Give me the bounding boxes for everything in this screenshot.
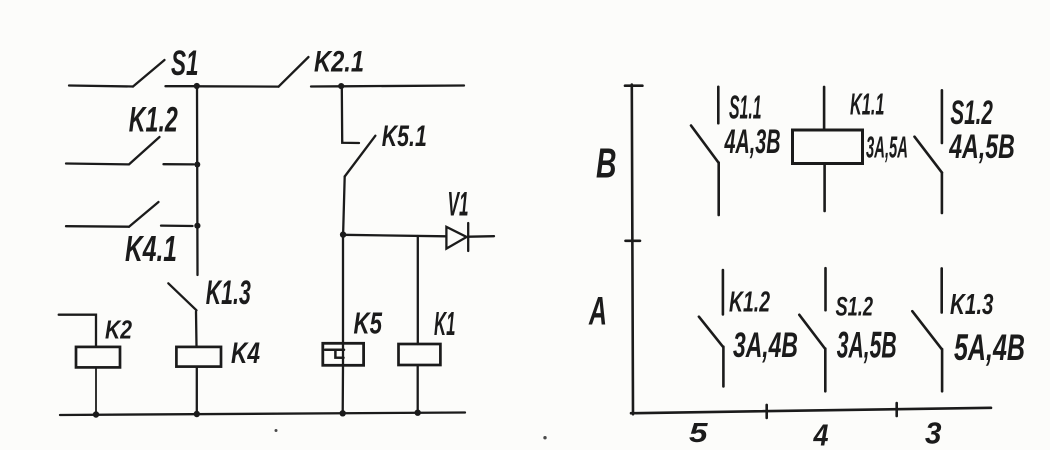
wire to K4 coil bbox=[195, 312, 198, 347]
wire K2 to rail bbox=[95, 367, 97, 414]
contact K1.3 top bbox=[940, 268, 943, 312]
svg-text:S1.2: S1.2 bbox=[950, 94, 993, 132]
wire K5.1 down bbox=[343, 177, 345, 235]
relay coil K4 bbox=[176, 347, 221, 367]
svg-text:3A,5A: 3A,5A bbox=[866, 130, 908, 165]
svg-text:K1.2: K1.2 bbox=[129, 101, 178, 140]
axis vertical bbox=[632, 85, 633, 415]
svg-text:K2: K2 bbox=[105, 315, 132, 345]
contact S1.2b top bbox=[824, 268, 827, 310]
svg-text:K1: K1 bbox=[434, 305, 456, 342]
axis tick x5/4 bbox=[765, 405, 768, 418]
contact K1.1 bottom bbox=[823, 164, 826, 212]
wire row1 b bbox=[166, 85, 198, 87]
axis top tick bbox=[625, 84, 642, 87]
switch K4.1 blade bbox=[129, 202, 159, 227]
svg-text:S1.1: S1.1 bbox=[729, 89, 762, 126]
svg-text:V1: V1 bbox=[448, 186, 469, 224]
wire K5 branch vertical bbox=[342, 235, 344, 366]
wire K2 stub bbox=[59, 315, 96, 347]
contact K1.3 bottom bbox=[941, 349, 944, 391]
svg-text:K1.2: K1.2 bbox=[729, 287, 770, 319]
node main junction bbox=[340, 231, 346, 237]
switch S1 blade bbox=[133, 60, 165, 87]
wire K1.2 row right bbox=[164, 163, 194, 165]
wire row1 c bbox=[197, 85, 279, 88]
diode V1 triangle bbox=[446, 227, 466, 249]
contact S1.2 blade bbox=[915, 137, 942, 173]
contact S1.2b bottom bbox=[824, 349, 827, 392]
wire K4 to rail bbox=[196, 367, 198, 414]
wire K1 branch vertical bbox=[417, 236, 419, 344]
speck bbox=[543, 436, 546, 439]
axis tick x4/3 bbox=[895, 403, 898, 416]
speck bbox=[275, 429, 278, 432]
node K4 rail junction bbox=[194, 411, 200, 417]
relay coil K2 bbox=[76, 347, 120, 368]
svg-text:S1.2: S1.2 bbox=[836, 292, 874, 322]
wire K2.1 junction down bbox=[341, 86, 344, 141]
diode V1 cathode bar bbox=[467, 223, 469, 251]
svg-text:K4: K4 bbox=[231, 337, 260, 370]
node K2 rail junction bbox=[93, 411, 99, 417]
wire bottom rail bbox=[60, 413, 465, 416]
wire K5.1 fixed stub bbox=[342, 141, 359, 143]
node K2.1 junction bbox=[338, 83, 344, 89]
relay coil K5 bbox=[323, 343, 364, 365]
wire K4.1 row right bbox=[161, 224, 193, 227]
node K1 rail junction bbox=[415, 410, 421, 416]
contact K1.1 top bbox=[823, 87, 826, 130]
svg-text:A: A bbox=[588, 290, 607, 334]
wire left vertical bus bbox=[196, 86, 199, 275]
coil K1.1 box bbox=[793, 130, 863, 164]
wire row1 e bbox=[342, 84, 465, 87]
contact K1.2 bottom bbox=[722, 347, 725, 387]
node S1 junction bbox=[194, 83, 200, 89]
wire K4.1 row left bbox=[66, 225, 129, 228]
svg-text:5A,4B: 5A,4B bbox=[954, 327, 1025, 368]
contact S1.2 top bbox=[941, 90, 944, 143]
svg-text:K1.3: K1.3 bbox=[950, 289, 994, 321]
svg-text:5: 5 bbox=[689, 417, 708, 448]
svg-text:4: 4 bbox=[813, 419, 829, 450]
svg-text:3: 3 bbox=[925, 417, 942, 450]
contact K1.2 top bbox=[722, 270, 725, 314]
switch K5.1 blade bbox=[345, 136, 376, 177]
relay coil K1 bbox=[399, 344, 441, 365]
axis mid tick bbox=[626, 240, 641, 243]
K5 inner latch mark bbox=[325, 350, 344, 358]
contact K1.3 blade bbox=[912, 311, 941, 349]
svg-text:K4.1: K4.1 bbox=[125, 228, 177, 269]
contact S1.2b blade bbox=[799, 315, 825, 349]
svg-text:B: B bbox=[596, 140, 617, 187]
svg-text:4A,3B: 4A,3B bbox=[724, 123, 781, 161]
svg-text:K5: K5 bbox=[354, 306, 383, 341]
contact S1.1 blade bbox=[691, 126, 718, 163]
svg-text:3A,5B: 3A,5B bbox=[837, 325, 897, 366]
node K5 rail junction bbox=[340, 410, 346, 416]
switch K2.1 blade bbox=[279, 57, 309, 87]
svg-text:4A,5B: 4A,5B bbox=[949, 128, 1015, 166]
contact S1.1 top bbox=[717, 87, 720, 123]
svg-text:3A,4B: 3A,4B bbox=[733, 326, 798, 365]
wire K1.2 row left bbox=[66, 162, 128, 165]
node K1.2 junction bbox=[194, 162, 200, 168]
svg-text:K1.1: K1.1 bbox=[850, 87, 885, 122]
switch K1.3 blade bbox=[168, 283, 196, 310]
axis horizontal bbox=[631, 408, 991, 413]
contact S1.1 bottom bbox=[717, 163, 720, 216]
wire diode right bbox=[469, 235, 494, 238]
node K4.1 junction bbox=[194, 223, 200, 229]
contact S1.2 bottom bbox=[941, 173, 944, 213]
wire row1 left bbox=[69, 86, 133, 87]
svg-text:S1: S1 bbox=[171, 44, 199, 83]
svg-text:K2.1: K2.1 bbox=[314, 46, 364, 79]
svg-text:K1.3: K1.3 bbox=[206, 274, 251, 312]
wire K1 to rail bbox=[417, 366, 419, 413]
contact K1.2 blade bbox=[699, 317, 723, 347]
wire row1 d bbox=[311, 85, 342, 87]
wire junction to diode bbox=[343, 235, 446, 237]
svg-text:K5.1: K5.1 bbox=[382, 120, 427, 153]
wire K5 to rail bbox=[342, 366, 345, 414]
switch K1.2 blade bbox=[129, 137, 160, 164]
